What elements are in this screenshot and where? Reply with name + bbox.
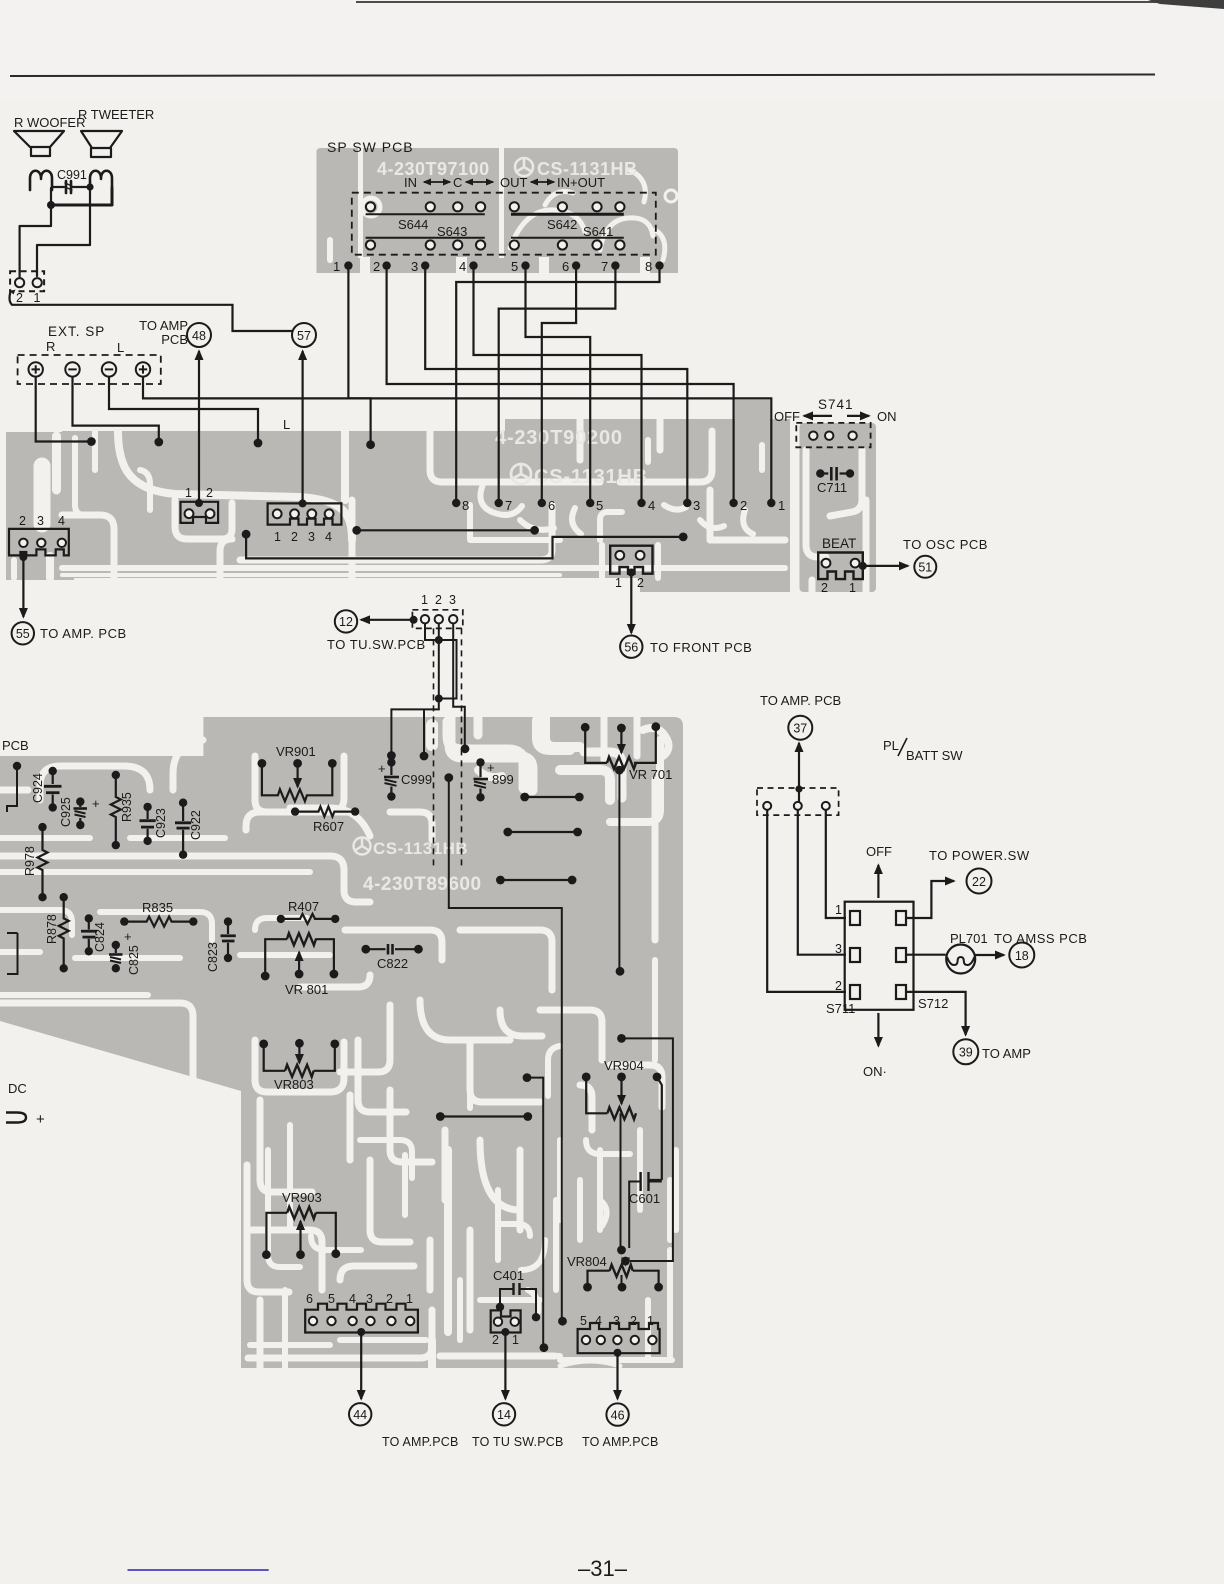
switch pins (850, 911, 906, 999)
capacitor C601 (641, 1172, 649, 1191)
logo SP block (515, 158, 533, 176)
wire SP pin7 to band pin7 (499, 266, 616, 503)
svg-text:2: 2 (373, 259, 380, 274)
wire to 44 (360, 1333, 362, 1400)
svg-text:2: 2 (206, 486, 213, 500)
wire lamp to 18 (975, 954, 1004, 956)
svg-text:4: 4 (349, 1292, 356, 1306)
connector ref 39 (953, 1039, 978, 1064)
svg-text:OFF: OFF (866, 844, 892, 859)
svg-text:EXT. SP: EXT. SP (48, 324, 105, 339)
wire junction to connector pin2 (20, 205, 51, 277)
wire to 12 (361, 619, 414, 621)
svg-text:7: 7 (505, 498, 512, 513)
capacitor C711 (824, 472, 846, 474)
band pads 8..1 (452, 499, 776, 507)
wire pad link y797 (525, 796, 580, 798)
wire battsw pin mid to S711 pin3 (798, 810, 846, 955)
svg-text:1: 1 (333, 259, 340, 274)
svg-text:L: L (117, 340, 124, 355)
pad dots on band (87, 437, 96, 446)
svg-text:12: 12 (339, 615, 353, 629)
switch assembly dashed box (352, 193, 656, 255)
svg-text:C601: C601 (629, 1191, 660, 1206)
svg-text:51: 51 (918, 561, 932, 575)
svg-text:L: L (283, 417, 290, 432)
svg-text:6: 6 (548, 498, 555, 513)
wire SP pin8 to band pin8 (456, 266, 659, 503)
wire long from node to lower right (449, 778, 562, 1318)
capacitor C924 (44, 772, 62, 806)
svg-text:VR 701: VR 701 (629, 767, 672, 782)
capacitor C824 (81, 920, 97, 951)
capacitor C925 (polar) (74, 803, 88, 823)
wire C991 node to connector pin1 (37, 187, 90, 276)
EXT SP terminal block (18, 355, 161, 384)
connector ref 44 (349, 1403, 371, 1425)
resistor R978 (38, 828, 48, 896)
svg-text:1: 1 (849, 581, 856, 595)
svg-text:2: 2 (19, 514, 26, 528)
wire ext sp terminal 4 (143, 377, 371, 441)
wire SP pin1 to band pin1 (348, 266, 771, 503)
wire ext sp terminal 1 (36, 377, 88, 442)
svg-text:48: 48 (192, 329, 206, 343)
svg-text:+: + (92, 796, 100, 811)
wire SP pin4 to band pin4 (474, 266, 642, 503)
svg-text:39: 39 (959, 1046, 973, 1060)
connector ref 51 (914, 556, 936, 578)
capacitor C823 (221, 923, 236, 958)
svg-text:IN: IN (404, 175, 417, 190)
svg-text:6: 6 (562, 259, 569, 274)
capacitor C923 (140, 808, 156, 840)
svg-text:56: 56 (624, 641, 638, 655)
switch bars S642/S641 (511, 213, 624, 216)
blue pen line (128, 1569, 269, 1571)
svg-text:55: 55 (16, 627, 30, 641)
svg-text:4-230T89600: 4-230T89600 (363, 874, 482, 895)
potentiometer VR801 (287, 933, 316, 945)
svg-text:1: 1 (406, 1292, 413, 1306)
resistor R607 (295, 807, 355, 817)
svg-text:2: 2 (435, 593, 442, 607)
svg-text:TO AMP. PCB: TO AMP. PCB (760, 693, 841, 708)
wire battsw pin left to S711 pin2 (767, 810, 846, 992)
svg-text:1: 1 (185, 486, 192, 500)
connector 6..1 bottom left (305, 1304, 418, 1333)
svg-text:R935: R935 (120, 792, 134, 822)
svg-text:C822: C822 (377, 956, 408, 971)
svg-text:S741: S741 (818, 397, 854, 412)
svg-text:–31–: –31– (578, 1556, 628, 1581)
svg-text:R607: R607 (313, 819, 344, 834)
svg-text:3: 3 (37, 514, 44, 528)
wire to 48 with arrow (198, 351, 200, 503)
svg-text:TO AMP.PCB: TO AMP.PCB (382, 1435, 459, 1449)
svg-text:ON: ON (877, 409, 897, 424)
connector ref 37 (788, 716, 812, 740)
connector 1-2 (to amp) on band (181, 502, 219, 523)
svg-text:3: 3 (613, 1314, 620, 1328)
switch contact circles bottom row (366, 240, 625, 249)
wire bracket upper left (7, 768, 17, 812)
switch contact circles top row (366, 202, 625, 211)
svg-text:VR901: VR901 (276, 744, 316, 759)
svg-text:C923: C923 (154, 808, 168, 838)
svg-text:2: 2 (630, 1314, 637, 1328)
svg-text:C823: C823 (206, 942, 220, 972)
svg-text:5: 5 (596, 498, 603, 513)
svg-text:3: 3 (449, 593, 456, 607)
svg-text:S711: S711 (826, 1001, 855, 1016)
connector ref 12 (335, 610, 357, 632)
svg-text:6: 6 (306, 1292, 313, 1306)
svg-text:S712: S712 (918, 996, 948, 1011)
svg-text:1: 1 (615, 576, 622, 590)
wire R connector output (10, 292, 292, 332)
wire SP pin2 to band pin2 (387, 266, 734, 503)
wire to 55 (22, 557, 24, 618)
wire BEAT to 51 (863, 565, 908, 567)
svg-text:R978: R978 (23, 846, 37, 876)
svg-text:C991: C991 (57, 168, 87, 182)
svg-text:1: 1 (421, 593, 428, 607)
svg-text:4: 4 (325, 530, 332, 544)
svg-text:TO AMP: TO AMP (982, 1046, 1031, 1061)
resistor R935 (111, 776, 121, 845)
svg-text:R: R (46, 339, 55, 354)
connector ref 18 (1009, 943, 1034, 968)
svg-text:C925: C925 (59, 797, 73, 827)
svg-text:7: 7 (601, 259, 608, 274)
svg-text:C924: C924 (31, 773, 45, 803)
svg-text:C711: C711 (817, 480, 847, 495)
svg-text:+: + (36, 1111, 45, 1128)
svg-text:VR903: VR903 (282, 1190, 322, 1205)
svg-text:C922: C922 (189, 810, 203, 840)
svg-text:C824: C824 (93, 922, 107, 952)
svg-text:8: 8 (645, 259, 652, 274)
svg-text:899: 899 (492, 772, 514, 787)
svg-text:5: 5 (511, 259, 518, 274)
wire pad link y1116 (440, 1115, 528, 1117)
around lower row R835/VR801 (0, 910, 72, 935)
svg-text:2: 2 (740, 498, 747, 513)
switch S711/S712 box (845, 902, 914, 1010)
svg-text:C999: C999 (401, 772, 432, 787)
PCB board: middle band 4-230T90200 (62, 400, 790, 592)
extra traces big board bottom (247, 1125, 676, 1366)
svg-text:4: 4 (648, 498, 655, 513)
connector R speaker 2-1 (10, 271, 44, 291)
svg-text:4: 4 (459, 259, 466, 274)
svg-text:2: 2 (16, 291, 23, 305)
svg-text:TO OSC PCB: TO OSC PCB (903, 537, 988, 552)
connector dashed battsw (757, 788, 839, 815)
svg-text:3: 3 (411, 259, 418, 274)
connector TU.SW dashed (412, 610, 462, 629)
wire to 37 (798, 743, 800, 802)
arrow ON (877, 1013, 879, 1046)
wire long from 1077 node (527, 1078, 543, 1344)
potentiometer VR803 (264, 1044, 285, 1071)
arrow OFF (877, 865, 879, 898)
wires TU.SW down (425, 623, 457, 698)
svg-text:5: 5 (328, 1292, 335, 1306)
svg-text:TO AMP: TO AMP (139, 318, 188, 333)
svg-text:OUT: OUT (500, 175, 528, 190)
svg-text:4-230T97100: 4-230T97100 (377, 159, 490, 179)
svg-text:2: 2 (835, 979, 842, 993)
scan artifact top bar (356, 1, 1224, 3)
wire SP pin3 to band pin3 (425, 266, 687, 503)
around VR901 (255, 756, 344, 812)
svg-text:8: 8 (462, 498, 469, 513)
svg-text:ON·: ON· (863, 1064, 887, 1079)
svg-text:VR904: VR904 (604, 1058, 644, 1073)
svg-text:R TWEETER: R TWEETER (78, 107, 154, 122)
svg-text:IN+OUT: IN+OUT (557, 175, 605, 190)
svg-text:BATT SW: BATT SW (906, 748, 963, 763)
svg-text:3: 3 (366, 1292, 373, 1306)
svg-text:3: 3 (308, 530, 315, 544)
svg-text:R407: R407 (288, 899, 319, 914)
svg-text:C825: C825 (127, 945, 141, 975)
logo middle band (511, 464, 531, 484)
wire S712 pin1 to 22 (906, 881, 954, 918)
svg-text:TO FRONT PCB: TO FRONT PCB (650, 640, 752, 655)
svg-text:+: + (378, 761, 386, 776)
connector 1-2 front pcb (610, 546, 652, 574)
wire to 56 (630, 573, 632, 634)
svg-text:37: 37 (793, 722, 807, 736)
PCB board: SP SW PCB block (317, 148, 679, 273)
capacitor 899 (polar) (479, 764, 481, 777)
svg-text:S643: S643 (437, 224, 467, 239)
svg-text:2: 2 (821, 581, 828, 595)
svg-text:PL: PL (883, 738, 899, 753)
svg-text:44: 44 (353, 1408, 367, 1422)
svg-text:TO TU SW.PCB: TO TU SW.PCB (472, 1435, 564, 1449)
svg-text:TO AMSS PCB: TO AMSS PCB (994, 931, 1087, 946)
resistor R878 (59, 898, 69, 967)
svg-text:1: 1 (835, 903, 842, 917)
switch bars S644/S643 (366, 214, 485, 238)
svg-text:1: 1 (778, 498, 785, 513)
wire SP pin6 to band pin6 (542, 266, 576, 503)
speaker R TWEETER (81, 131, 122, 157)
terminal - R (65, 362, 79, 376)
svg-text:18: 18 (1015, 949, 1029, 963)
connector 2-1 C401 (491, 1310, 521, 1332)
connector ref 57 (292, 323, 316, 347)
connector ref 46 (606, 1403, 628, 1425)
column/channels center (260, 1100, 312, 1192)
connector 2-3-4 left (9, 529, 69, 556)
svg-text:VR 801: VR 801 (285, 982, 328, 997)
svg-text:TO AMP.PCB: TO AMP.PCB (582, 1435, 659, 1449)
svg-text:4: 4 (58, 514, 65, 528)
svg-text:SP SW PCB: SP SW PCB (327, 139, 414, 155)
svg-text:4-230T90200: 4-230T90200 (495, 427, 623, 449)
svg-text:R835: R835 (142, 900, 173, 915)
PCB board: left column with connector (6, 432, 74, 580)
svg-text:2: 2 (291, 530, 298, 544)
wire woofer to junction (50, 188, 52, 205)
svg-text:PL701: PL701 (950, 931, 988, 946)
svg-text:3: 3 (693, 498, 700, 513)
speaker R WOOFER (14, 131, 64, 156)
SP pins 1-8 (333, 259, 652, 274)
coil tweeter voice coil (90, 171, 112, 190)
extra traces band (75, 431, 762, 578)
svg-text:1: 1 (34, 291, 41, 305)
svg-text:CS-1131HB: CS-1131HB (373, 839, 468, 858)
svg-text:TO POWER.SW: TO POWER.SW (929, 848, 1030, 863)
capacitor C825 (polar) (109, 946, 123, 967)
svg-text:R878: R878 (45, 914, 59, 944)
terminal - L (102, 362, 116, 376)
svg-text:DC: DC (8, 1081, 27, 1096)
connector 1-4 (to 57) on band (268, 503, 342, 524)
wire battsw pin right to S711 pin1 (826, 810, 846, 918)
printed rule (10, 74, 1155, 78)
svg-text:TO TU.SW.PCB: TO TU.SW.PCB (327, 637, 426, 652)
wire band link 1 (357, 529, 535, 531)
terminal + R (29, 362, 43, 376)
svg-text:22: 22 (972, 875, 986, 889)
wire to 57 with arrow (302, 351, 304, 503)
connector ref 55 (12, 622, 34, 644)
junction dots speaker (47, 201, 55, 209)
svg-text:14: 14 (497, 1408, 511, 1422)
svg-text:2: 2 (492, 1333, 499, 1347)
svg-text:PCB: PCB (2, 738, 29, 753)
wire to 46 (616, 1353, 618, 1399)
svg-text:4: 4 (595, 1314, 602, 1328)
capacitor C991 (53, 186, 86, 188)
svg-text:TO AMP. PCB: TO AMP. PCB (40, 626, 127, 641)
svg-text:1: 1 (274, 530, 281, 544)
capacitor C822 (366, 948, 419, 950)
wire bracket lower left (7, 933, 18, 974)
svg-text:PCB: PCB (161, 332, 188, 347)
connector ref 14 (493, 1403, 515, 1425)
junction dots under C601 (617, 1246, 626, 1255)
capacitor C999 (polar) (390, 758, 392, 775)
wire from VR904 wiper down to VR804 (622, 1038, 673, 1261)
svg-text:+: + (124, 929, 132, 944)
svg-text:OFF: OFF (774, 409, 800, 424)
svg-text:C401: C401 (493, 1268, 524, 1283)
wire to 14 (504, 1333, 506, 1400)
PCB board: S741/BEAT column (800, 423, 877, 592)
svg-text:BEAT: BEAT (822, 536, 856, 551)
wire pad link y832 (508, 831, 578, 833)
top right thick pattern (450, 717, 532, 790)
svg-text:S642: S642 (547, 217, 577, 232)
connector 5..1 bottom right (578, 1323, 660, 1353)
svg-text:S641: S641 (583, 224, 613, 239)
potentiometer VR701 (585, 727, 631, 769)
svg-text:R WOOFER: R WOOFER (14, 115, 86, 130)
wire ext sp terminal 3 (109, 377, 258, 439)
svg-text:C: C (453, 175, 462, 190)
svg-text:S644: S644 (398, 217, 428, 232)
big area below VR801 (340, 1005, 390, 1072)
coil woofer voice coil (30, 171, 52, 190)
capacitor C922 (175, 804, 191, 854)
TU.SW cable dashed outlines (433, 628, 435, 868)
svg-text:1: 1 (512, 1333, 519, 1347)
DC jack symbol (6, 1113, 26, 1123)
bottom dense traces (250, 1230, 322, 1290)
wire pad link y880 (500, 879, 572, 881)
svg-text:VR803: VR803 (274, 1077, 314, 1092)
svg-text:2: 2 (386, 1292, 393, 1306)
svg-text:3: 3 (835, 942, 842, 956)
svg-text:2: 2 (637, 576, 644, 590)
wire SP pin5 to band pin5 (526, 266, 591, 503)
horizontal double lines mid-left (0, 856, 370, 902)
wire junction to tweeter (51, 188, 112, 205)
extra traces big board top right (448, 720, 669, 798)
extra traces big board mid (358, 1010, 630, 1178)
svg-text:1: 1 (647, 1314, 654, 1328)
connector ref 56 (620, 636, 642, 658)
wire S712 pin2 to 39 (906, 992, 966, 1035)
connector ref 22 (967, 869, 992, 894)
svg-text:VR804: VR804 (567, 1254, 607, 1269)
connector ref 48 (187, 323, 211, 347)
logo lower board (354, 838, 371, 855)
terminal + L (136, 362, 150, 376)
svg-text:46: 46 (611, 1409, 625, 1423)
svg-text:57: 57 (297, 329, 311, 343)
PCB board: big bottom-left board 4-230T89600 (0, 717, 683, 1368)
wire ext sp terminal 2 (73, 377, 159, 438)
wire band link 2 (246, 534, 683, 558)
svg-text:5: 5 (580, 1314, 587, 1328)
